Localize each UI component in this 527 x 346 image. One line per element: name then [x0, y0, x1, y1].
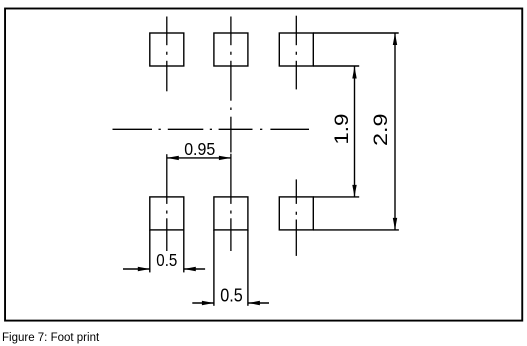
- svg-text:1.9: 1.9: [331, 114, 353, 145]
- svg-text:0.95: 0.95: [184, 139, 215, 159]
- svg-text:2.9: 2.9: [370, 114, 392, 147]
- svg-text:Figure 7: Foot print: Figure 7: Foot print: [2, 332, 100, 344]
- svg-text:0.5: 0.5: [220, 285, 243, 305]
- svg-text:0.5: 0.5: [156, 250, 177, 270]
